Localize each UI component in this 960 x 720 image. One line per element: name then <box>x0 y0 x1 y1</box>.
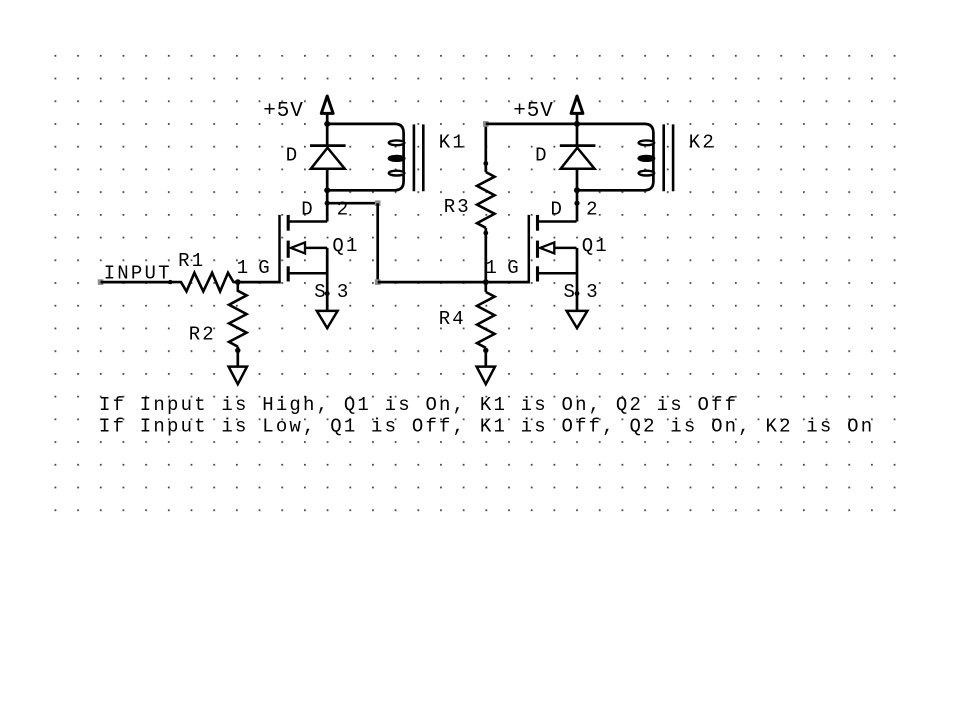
svg-text:If Input is Low, Q1 is Off, K1: If Input is Low, Q1 is Off, K1 is Off, Q… <box>99 415 874 437</box>
svg-text:+5V: +5V <box>513 100 554 123</box>
ground symbol under Q2 (right) <box>567 311 588 328</box>
corner square drain link bottom <box>375 279 381 285</box>
wire +5V rail 2 horizontal <box>486 123 577 126</box>
svg-text:1: 1 <box>237 257 251 279</box>
wire drain node across (left) <box>327 202 378 205</box>
pin dot R3 top <box>483 161 488 166</box>
mosfet Q2-right channel segment top <box>536 215 539 231</box>
relay K2 coil loop 1 <box>639 140 655 145</box>
svg-text:Q1: Q1 <box>582 235 609 257</box>
relay K2 coil outline <box>577 124 653 190</box>
power symbol +5V (right) <box>571 96 583 113</box>
svg-text:1: 1 <box>485 257 499 279</box>
pin dot R1 left <box>168 280 172 284</box>
wire R3 bottom to rail <box>484 228 487 282</box>
terminal square R3 top <box>483 121 489 127</box>
pin dot R2 bottom <box>235 348 240 353</box>
svg-text:2: 2 <box>337 199 351 221</box>
junction dot R1/R2 <box>235 279 241 285</box>
mosfet Q1-left body lead <box>304 247 328 250</box>
diode D1 anode triangle <box>311 148 345 169</box>
svg-text:D: D <box>535 144 549 166</box>
mosfet Q2-right drain stub <box>538 220 577 223</box>
diode D1 cathode bar <box>310 144 346 147</box>
svg-text:R2: R2 <box>189 324 216 346</box>
wire R2 to ground <box>236 347 239 367</box>
junction dot rail bottom K1 <box>324 187 330 193</box>
relay K2 core bar 1 <box>662 124 665 191</box>
relay K1 coil loop 1 <box>389 140 405 145</box>
relay K1 core bar 2 <box>422 124 425 191</box>
relay K2 core bar 2 <box>672 124 675 191</box>
relay K1 coil loop 3 <box>389 171 405 176</box>
pin dot R4 bottom <box>483 348 488 353</box>
junction dot rail top K1 <box>324 121 330 127</box>
wire +5V rail 2 down to R3 <box>484 124 487 172</box>
wire diode D2 anode down <box>576 169 579 222</box>
junction dot R3/R4 gate rail <box>483 279 489 285</box>
mosfet Q1-left channel segment bottom <box>287 266 290 281</box>
svg-text:D: D <box>301 199 315 221</box>
mosfet Q2-right channel segment middle <box>536 241 539 258</box>
relay K2 coil loop 2 <box>639 156 655 161</box>
wire input to R1 <box>101 281 171 284</box>
wire drain link vertical <box>376 203 379 282</box>
svg-text:2: 2 <box>586 199 600 221</box>
wire power arrow to rail (left) <box>326 113 329 145</box>
wire Q1 source to ground (left) <box>326 248 329 311</box>
relay K1 coil loop 2 <box>389 156 405 161</box>
mosfet Q1-left source stub <box>288 272 327 275</box>
svg-text:D: D <box>286 144 300 166</box>
svg-text:G: G <box>258 257 272 279</box>
wire Q2 source to ground (right) <box>576 248 579 311</box>
mosfet Q2-right gate line <box>528 215 531 283</box>
wire rail to R4 <box>484 282 487 292</box>
ground symbol under Q1 (left) <box>317 311 338 328</box>
mosfet Q1-left body arrow <box>291 242 305 253</box>
wire power arrow to rail (right) <box>576 113 579 145</box>
wire link to Q2 gate rail <box>378 281 530 284</box>
mosfet Q1-left drain stub <box>288 220 327 223</box>
mosfet Q2-right body lead <box>553 247 577 250</box>
svg-text:S: S <box>314 281 328 303</box>
svg-text:3: 3 <box>586 281 600 303</box>
resistor R1 <box>170 273 238 292</box>
junction dot rail top K2 <box>574 121 580 127</box>
pin dot Q2 source (right) <box>575 291 580 296</box>
input terminal square <box>98 279 104 285</box>
resistor R4 <box>477 292 495 348</box>
pin dot Q1 source (left) <box>325 291 330 296</box>
svg-text:R3: R3 <box>444 196 471 218</box>
junction dot drain node (left) <box>325 201 330 206</box>
mosfet Q1-left channel segment middle <box>287 241 290 258</box>
diode D2 cathode bar <box>560 144 596 147</box>
mosfet Q2-right source stub <box>538 272 577 275</box>
wire R4 to ground <box>484 348 487 367</box>
junction dot rail bottom K2 <box>574 187 580 193</box>
svg-text:G: G <box>507 257 521 279</box>
wire drain node down to Q1 drain <box>326 203 329 221</box>
pin dot drain node (right) <box>574 201 579 206</box>
relay K1 core bar 1 <box>413 124 416 191</box>
pin dot R3 bottom <box>483 231 488 236</box>
mosfet Q2-right body arrow <box>540 242 554 253</box>
ground symbol under R2 <box>229 367 247 385</box>
mosfet Q2-right channel segment bottom <box>536 266 539 281</box>
svg-text:3: 3 <box>337 281 351 303</box>
mosfet Q1-left channel segment top <box>287 215 290 231</box>
relay K1 coil outline <box>327 124 403 190</box>
resistor R3 <box>477 172 495 228</box>
corner square drain link top <box>375 200 381 206</box>
svg-text:K1: K1 <box>439 132 466 154</box>
svg-text:R4: R4 <box>439 308 466 330</box>
diode D2 anode triangle <box>561 148 595 169</box>
svg-text:+5V: +5V <box>263 100 304 123</box>
power symbol +5V (left) <box>321 96 333 113</box>
svg-text:If Input is High, Q1 is On, K1: If Input is High, Q1 is On, K1 is On, Q2… <box>99 394 738 416</box>
wire R1 to Q1 gate <box>238 281 281 284</box>
ground symbol under R4 <box>477 367 495 385</box>
svg-text:Q1: Q1 <box>332 235 359 257</box>
wire diode D1 anode down <box>326 169 329 203</box>
mosfet Q1-left gate line <box>278 215 281 283</box>
svg-text:S: S <box>564 281 578 303</box>
svg-text:R1: R1 <box>178 250 205 272</box>
svg-text:D: D <box>551 199 565 221</box>
svg-text:K2: K2 <box>689 132 716 154</box>
resistor R2 <box>229 282 247 347</box>
relay K2 coil loop 3 <box>639 171 655 176</box>
